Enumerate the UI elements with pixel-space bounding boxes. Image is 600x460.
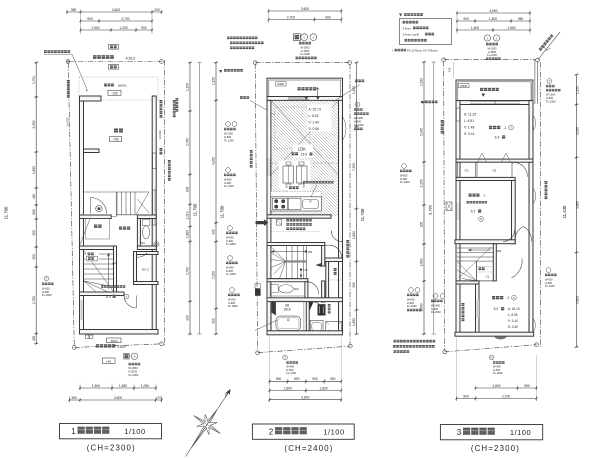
plan2 void cross mark	[271, 100, 339, 175]
svg-text:WC: WC	[294, 287, 300, 291]
svg-text:H-900: H-900	[224, 135, 232, 139]
svg-text:FL-2400: FL-2400	[354, 123, 364, 127]
plan2 gutter leader	[333, 85, 359, 102]
svg-text:900: 900	[330, 377, 336, 381]
plan2 bath room border	[271, 301, 304, 332]
plan1 hall partition wall left	[80, 215, 112, 219]
svg-text:V: 1.44: V: 1.44	[309, 121, 319, 125]
plan3 road label	[539, 34, 554, 51]
plan2 right dimension line	[354, 61, 358, 335]
svg-text:(CH=2300): (CH=2300)	[471, 444, 520, 453]
svg-text:2,945: 2,945	[420, 128, 424, 136]
plan2 closet top wall	[325, 258, 343, 262]
plan2 left spec block b1	[226, 122, 231, 127]
plan2 left spec block b4	[228, 256, 233, 261]
svg-text:B: B	[513, 296, 515, 300]
svg-text:S: 0.40: S: 0.40	[508, 325, 518, 329]
plan2 window spec rows	[299, 42, 311, 45]
plan3 left column window	[476, 300, 479, 318]
plan2 rear boundary pin right	[348, 344, 352, 348]
plan3 window spec rows	[486, 43, 498, 46]
plan3 road corner pin	[536, 58, 540, 62]
svg-text:FL-1200: FL-1200	[224, 138, 234, 142]
plan1 entry leader line	[79, 218, 91, 248]
plan2 cupboard label	[288, 186, 303, 192]
plan1 right wall	[152, 96, 156, 334]
svg-text:900: 900	[312, 377, 318, 381]
svg-text:1,850: 1,850	[352, 318, 356, 326]
plan3 top wall	[456, 101, 533, 105]
plan2 kitchen hood dashed	[271, 191, 322, 212]
plan2 stairs top wall	[267, 243, 325, 246]
svg-text:11,700: 11,700	[4, 206, 9, 219]
plan1 road boundary line	[68, 61, 162, 63]
plan3 balcony shutter mark	[482, 94, 486, 97]
svg-text:900: 900	[32, 230, 36, 236]
plan3 bottom window spec	[489, 355, 494, 360]
plan3 balcony w200 box	[459, 84, 470, 88]
svg-text:W-1600: W-1600	[300, 45, 310, 49]
svg-text:4,513: 4,513	[126, 56, 136, 60]
svg-text:H-2030: H-2030	[129, 369, 138, 373]
plan3 cl bottom wall	[456, 177, 515, 180]
plan2 bottom window spec	[283, 355, 288, 360]
svg-text:H-900: H-900	[545, 281, 553, 285]
svg-text:W-1200: W-1200	[354, 116, 364, 120]
svg-text:FL-1200: FL-1200	[224, 184, 234, 188]
plan3 glass note box	[400, 19, 452, 45]
plan2 left dimension line	[214, 61, 218, 335]
svg-text:UP: UP	[303, 268, 307, 272]
plan2 bottom dimension tier2	[268, 388, 342, 392]
plan3 rear boundary pin right	[535, 343, 539, 347]
svg-text:7,290: 7,290	[352, 163, 356, 171]
plan1 bedroom door arc	[124, 296, 137, 309]
svg-text:V: 1.44: V: 1.44	[508, 319, 518, 323]
svg-text:(CH=2300): (CH=2300)	[87, 444, 136, 453]
plan1 stairs 1F winder	[84, 281, 114, 287]
plan1 under-stair storage label	[86, 252, 99, 262]
svg-text:FL-2000: FL-2000	[129, 373, 139, 377]
plan1 level box lower	[109, 65, 119, 70]
plan3 balcony outer wall	[456, 80, 533, 101]
svg-text:900: 900	[87, 17, 93, 21]
plan2 right boundary line	[349, 64, 351, 344]
svg-text:2: 2	[269, 428, 274, 437]
svg-text:900: 900	[212, 318, 216, 324]
plan1 left boundary line	[68, 63, 74, 347]
plan3 road boundary line	[444, 59, 536, 61]
plan1 right boundary line	[164, 60, 166, 346]
svg-text:R: R	[284, 356, 286, 360]
svg-text:900: 900	[186, 315, 190, 321]
plan2 right spec block A	[355, 102, 360, 107]
svg-text:1,800: 1,800	[420, 258, 424, 266]
svg-text:DN: DN	[497, 249, 501, 253]
svg-text:1/100: 1/100	[323, 428, 344, 437]
svg-text:900: 900	[463, 394, 469, 398]
plan2 kitchen lower wall	[267, 215, 331, 218]
plan2 bath door dark	[271, 302, 276, 316]
plan3 roof balcony label	[462, 303, 465, 321]
plan1 toilet 1F	[142, 220, 150, 226]
plan3 left boundary line	[444, 61, 445, 351]
plan1 window spec box bottom	[102, 358, 115, 363]
plan1 ventilation symbol	[154, 242, 159, 247]
plan2 stair door leaf mark	[315, 263, 321, 267]
plan1 stair right wall 1F	[114, 246, 117, 292]
svg-text:(W600): (W600)	[118, 84, 127, 88]
svg-text:2,700: 2,700	[121, 17, 129, 21]
svg-text:5.2: 5.2	[471, 210, 476, 214]
plan1 wall leader note	[44, 50, 70, 53]
plan2 void dotted outline	[275, 107, 310, 149]
plan2 stairs right wall lower	[322, 281, 325, 302]
plan1 right gutter label	[168, 160, 171, 181]
svg-text:14,930: 14,930	[158, 130, 162, 139]
plan3 road edge vertical	[534, 60, 536, 104]
svg-text:A: 25.73: A: 25.73	[309, 108, 321, 112]
svg-text:1,800: 1,800	[492, 384, 500, 388]
svg-text:W-1200: W-1200	[224, 132, 234, 136]
plan3 balcony label	[480, 88, 499, 91]
svg-text:FL-2400: FL-2400	[300, 52, 310, 56]
plan3 top dimension tier3	[456, 28, 531, 32]
svg-text:200: 200	[154, 8, 160, 12]
svg-text:FL-2000: FL-2000	[407, 304, 417, 308]
plan1 meter boxes	[86, 335, 89, 338]
plan2 kitchen sink	[303, 200, 319, 209]
svg-text:2,700: 2,700	[287, 15, 295, 19]
svg-text:900: 900	[463, 17, 469, 21]
plan3 bottom dim guides	[456, 338, 458, 401]
svg-text:1,800: 1,800	[489, 17, 497, 21]
plan3 rear boundary line	[445, 345, 537, 352]
plan2 sink counter	[288, 198, 301, 209]
svg-text:900: 900	[352, 282, 356, 288]
plan1 entrance door arc	[91, 198, 107, 214]
svg-text:9,780: 9,780	[428, 204, 433, 215]
plan2 bath walls	[267, 298, 343, 302]
plan3 room2 labels	[492, 296, 503, 299]
plan1 right dimension line	[188, 61, 192, 335]
svg-text:170: 170	[156, 396, 162, 400]
svg-text:(CH=2400): (CH=2400)	[284, 444, 333, 453]
svg-text:1,150: 1,150	[352, 86, 356, 94]
plan1 left dimension line	[34, 62, 38, 345]
svg-text:FL-2000: FL-2000	[42, 293, 52, 297]
compass rose	[178, 401, 230, 457]
plan3 cl1	[458, 162, 476, 177]
plan3 right boundary line	[539, 62, 541, 347]
plan1 top dimension tier1	[66, 10, 163, 14]
plan2 wc room outline	[270, 282, 305, 296]
plan2 notice mark box	[276, 220, 282, 226]
plan1 road boundary label	[93, 55, 114, 59]
svg-text:1,754: 1,754	[32, 76, 36, 84]
plan3 top dimension tier1	[456, 11, 531, 15]
svg-text:W-400: W-400	[493, 364, 501, 368]
svg-text:H-900: H-900	[224, 181, 232, 185]
plan2 closet door arcs	[331, 231, 342, 242]
plan3 bottom wall	[455, 332, 534, 336]
plan1 genkan label	[94, 225, 102, 228]
svg-text:350: 350	[71, 8, 77, 12]
svg-text:6.0: 6.0	[106, 295, 111, 299]
plan2 bottom dimension tier1	[268, 379, 342, 383]
svg-text:2,700: 2,700	[502, 394, 510, 398]
svg-text:-1: -1	[504, 126, 507, 130]
plan1 up arrow	[108, 253, 110, 289]
svg-text:W-800: W-800	[400, 173, 408, 177]
svg-text:3 0mm Low-E: 3 0mm Low-E	[403, 33, 420, 37]
plan1 top dimension tier2	[79, 19, 153, 23]
plan3 bottom shutter mark	[495, 336, 507, 339]
plan2 bathtub	[276, 316, 301, 330]
plan2 left boundary line	[255, 64, 257, 352]
svg-text:H-1800: H-1800	[488, 50, 497, 54]
svg-text:H-400: H-400	[431, 307, 439, 311]
svg-text:6 5mm: 6 5mm	[403, 26, 412, 30]
svg-text:3,650: 3,650	[489, 9, 497, 13]
plan3 balcony side wall shade	[531, 82, 534, 101]
svg-text:H-900: H-900	[226, 239, 234, 243]
svg-text:3,600: 3,600	[301, 7, 309, 11]
svg-text:FL-2000: FL-2000	[545, 284, 555, 288]
svg-text:V: 1.48: V: 1.48	[464, 126, 474, 130]
plan1 right upper vertical label	[176, 98, 179, 112]
plan2 left spec block b2	[226, 168, 231, 173]
svg-text:CL: CL	[492, 169, 496, 173]
plan2 bottom dimension tier3	[268, 398, 342, 402]
svg-text:FL-1800: FL-1800	[228, 304, 238, 308]
svg-text:R: R	[549, 79, 551, 83]
plan1 stairs 1F treads	[84, 253, 114, 255]
plan1 garage canopy label	[104, 84, 114, 87]
plan3 left overall line	[433, 62, 435, 334]
svg-text:W-600: W-600	[407, 297, 415, 301]
plan2 water heater	[255, 284, 260, 289]
plan3 left boundary label	[441, 120, 444, 134]
svg-text:W-800: W-800	[226, 235, 234, 239]
plan1 right boundary label	[160, 100, 163, 118]
svg-text:W-600: W-600	[228, 297, 236, 301]
svg-text:W-600: W-600	[545, 277, 553, 281]
svg-text:1,800: 1,800	[319, 386, 327, 390]
svg-text:S: 0.56: S: 0.56	[309, 127, 320, 131]
plan3 right dimension line	[574, 74, 578, 349]
svg-text:DN: DN	[308, 250, 312, 254]
plan2 boundary pin right	[348, 61, 352, 65]
plan1 left wall	[80, 96, 84, 334]
plan1 porch steps break line	[136, 192, 149, 215]
plan2 window mark box	[294, 34, 301, 41]
plan1 wc partition wall	[137, 219, 140, 247]
plan3 corridor door arcs	[515, 227, 523, 242]
svg-text:FL-1800: FL-1800	[226, 242, 236, 246]
plan1 bedroom partition wall	[80, 292, 125, 296]
plan3 left window outside mark	[446, 202, 452, 211]
plan3 stairs treads 3F	[457, 247, 493, 249]
plan3 left wall	[456, 101, 460, 336]
svg-text:5.0: 5.0	[494, 307, 499, 311]
svg-text:3,600: 3,600	[112, 8, 120, 12]
plan2 wc walls	[267, 279, 308, 282]
svg-text:H-900: H-900	[400, 177, 408, 181]
svg-text:900: 900	[325, 15, 331, 19]
svg-text:B: B	[480, 217, 482, 221]
svg-text:H-300: H-300	[354, 120, 362, 124]
plan1 wic walls	[134, 252, 137, 285]
svg-text:1,820: 1,820	[352, 231, 356, 239]
plan2 closet label	[334, 268, 337, 275]
plan2 top dimension tier1	[268, 9, 343, 13]
plan1 bottom dimension tier2	[68, 398, 163, 402]
plan3 stairs winder 3F	[457, 262, 477, 281]
plan2 right wall	[339, 100, 343, 334]
plan2 top dim guides	[268, 11, 270, 23]
plan3 storage room walls	[512, 181, 516, 244]
svg-text:905: 905	[420, 222, 424, 228]
plan2 top dimension tier2	[268, 17, 343, 21]
plan1 eaves dotted outline	[79, 77, 158, 100]
plan3 glass note title	[399, 14, 402, 17]
plan2 rear boundary pin left	[256, 351, 260, 355]
svg-text:900: 900	[276, 377, 282, 381]
plan2 washroom dark label	[318, 304, 326, 315]
svg-text:350: 350	[71, 396, 77, 400]
svg-text:1,800: 1,800	[283, 386, 291, 390]
svg-text:660: 660	[32, 209, 36, 215]
plan3 left outside note	[421, 101, 424, 104]
svg-text:L: 6.91: L: 6.91	[464, 119, 474, 123]
plan1 caption box	[60, 424, 162, 439]
plan3 right spec block lower	[546, 268, 551, 273]
svg-text:3,600: 3,600	[301, 396, 309, 400]
plan2 notice rows	[286, 219, 312, 222]
plan3 right spec block upper	[547, 79, 552, 84]
plan3 stairs right wall	[493, 244, 496, 281]
plan1 level box -5000	[106, 338, 121, 343]
svg-text:FG 1270mm, H2 703mm): FG 1270mm, H2 703mm)	[407, 49, 438, 53]
svg-text:R: R	[46, 277, 48, 281]
compass needle arrow	[186, 393, 229, 457]
plan1 hall label	[119, 227, 130, 230]
svg-text:11,700: 11,700	[220, 205, 225, 218]
plan3 left dimension line	[422, 61, 426, 335]
svg-text:2,950: 2,950	[420, 78, 424, 86]
svg-text:2,760: 2,760	[186, 138, 190, 146]
plan3 right boundary label	[545, 181, 548, 199]
plan2 balcony support note	[219, 70, 222, 73]
plan2 kitchen note leader	[303, 181, 334, 184]
svg-text:A: 16.10: A: 16.10	[508, 307, 520, 311]
plan2 bath leader	[255, 320, 277, 331]
svg-text:3: 3	[457, 428, 462, 437]
plan3 caption box	[440, 425, 542, 440]
plan2 note rows top-left	[227, 37, 258, 40]
plan2 left spec block b5	[230, 288, 235, 293]
plan3 left wall window mid	[456, 203, 459, 220]
plan1 porch outline	[84, 192, 117, 217]
plan1 bedroom window left	[80, 300, 83, 320]
svg-text:FL-2300: FL-2300	[546, 100, 556, 104]
svg-text:A: A	[510, 126, 512, 130]
plan2 stairs enclosure	[306, 246, 308, 279]
svg-text:W.I.C: W.I.C	[142, 268, 150, 272]
plan1 mid partition wall	[80, 246, 117, 250]
plan1 wic door arc	[137, 253, 148, 257]
svg-text:3,600: 3,600	[114, 396, 122, 400]
svg-text:W200: W200	[460, 84, 467, 88]
plan1 porch steps	[116, 192, 118, 215]
plan3 cl folding doors	[478, 153, 487, 162]
svg-text:410: 410	[32, 194, 36, 200]
svg-text:1,850: 1,850	[507, 26, 515, 30]
svg-text:W-1650: W-1650	[487, 46, 497, 50]
svg-text:2,030: 2,030	[575, 127, 579, 135]
svg-text:11,700: 11,700	[193, 203, 198, 216]
plan1 boundary pin left	[66, 60, 70, 64]
svg-text:2,219: 2,219	[186, 211, 190, 219]
svg-text:3,880: 3,880	[575, 201, 579, 209]
plan2 toilet 2F	[271, 285, 278, 293]
svg-text:900: 900	[294, 377, 300, 381]
svg-text:1,150: 1,150	[186, 83, 190, 91]
svg-text:900: 900	[32, 254, 36, 260]
plan2 washroom door wedge	[308, 302, 313, 314]
plan1 stairs break line	[84, 251, 113, 291]
svg-text:900: 900	[141, 26, 147, 30]
plan2 dn arrow	[271, 251, 306, 253]
plan1 top dimension tier3	[79, 28, 153, 32]
plan2 vent arrow	[256, 219, 269, 226]
svg-text:W-600: W-600	[226, 265, 234, 269]
plan2 bottom dim guides	[268, 337, 270, 402]
plan3 cl2	[477, 162, 512, 177]
svg-text:H-1800: H-1800	[301, 49, 310, 53]
svg-text:H-600: H-600	[493, 368, 501, 372]
svg-text:FL-2000: FL-2000	[431, 310, 441, 314]
plan2 window mark circles	[301, 34, 308, 41]
svg-text:H-500: H-500	[286, 368, 294, 372]
svg-text:W-400: W-400	[286, 364, 294, 368]
svg-text:16.5: 16.5	[301, 153, 307, 157]
svg-text:6.9: 6.9	[495, 136, 500, 140]
plan2 washing machine	[326, 321, 342, 333]
plan3 window mark circles	[484, 35, 490, 41]
svg-text:WC: WC	[140, 241, 146, 245]
plan2 washbasin	[310, 321, 323, 333]
plan1 garage side stub wall	[84, 149, 100, 153]
svg-text:(: (	[392, 49, 393, 53]
plan3 dn arrow 3F	[468, 249, 491, 251]
svg-text:FL-2000: FL-2000	[400, 180, 410, 184]
svg-text:400: 400	[32, 336, 36, 342]
svg-text:1/100: 1/100	[510, 428, 531, 437]
plan1 entrance pillar symbol	[96, 206, 102, 212]
svg-text:1,150: 1,150	[212, 77, 216, 85]
svg-text:-1: -1	[483, 194, 486, 198]
plan2 left wall window	[267, 158, 270, 176]
plan3 stair storage	[477, 261, 494, 281]
svg-text:B: B	[134, 355, 136, 359]
svg-text:B: B	[357, 103, 359, 107]
svg-text:FL-1400: FL-1400	[286, 371, 296, 375]
plan2 dining table	[279, 161, 311, 190]
plan2 stairs treads 2F	[285, 246, 287, 279]
svg-text:H-500: H-500	[226, 269, 234, 273]
